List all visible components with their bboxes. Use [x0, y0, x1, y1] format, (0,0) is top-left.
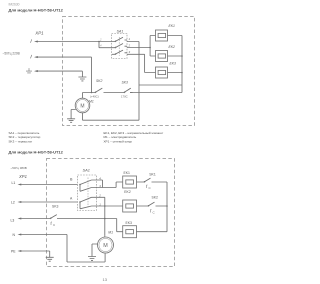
svg-text:XP1: XP1: [34, 31, 44, 36]
dashed enclosure upper schematic: [63, 17, 195, 126]
wire fan feed vertical: [104, 206, 106, 235]
wire EK3 right to node: [137, 231, 168, 233]
switch SA1 upper contact 3: [112, 50, 127, 54]
legend text left column: [9, 131, 41, 143]
svg-text:SK3: SK3: [52, 205, 59, 209]
switch SA1 upper enclosure: [112, 34, 128, 59]
node N arrow upper: [31, 55, 38, 59]
thermal cutout SK3 upper: [122, 88, 133, 93]
wire SA1 pin2 to EK1 EK2 feed: [127, 36, 156, 57]
svg-text:PE: PE: [11, 250, 16, 254]
svg-text:EK3: EK3: [170, 62, 177, 66]
ground PE upper: [78, 77, 86, 81]
svg-text:2: 2: [128, 44, 131, 48]
thermostat SK2 upper: [92, 88, 122, 93]
heater EK1 upper: [156, 30, 168, 41]
heater EK1 lower: [123, 176, 137, 188]
thermal cutout SK2 lower: [137, 202, 168, 214]
svg-text:XP1 – сетевой шнур: XP1 – сетевой шнур: [104, 139, 133, 143]
heater EK2 upper: [156, 51, 168, 62]
node N junction upper: [91, 92, 93, 94]
svg-text:SK1: SK1: [149, 172, 156, 176]
wire pin1 to EK2: [97, 205, 123, 207]
node A junction: [79, 201, 81, 203]
ground motor upper: [67, 119, 75, 123]
svg-text:SA1: SA1: [83, 168, 90, 173]
node L2 arrow: [11, 201, 21, 205]
wire N junction to motor top: [83, 93, 92, 99]
ground PE lower: [46, 257, 54, 261]
wire SA1 pin3 to EK3: [127, 54, 156, 72]
svg-text:SK2: SK2: [152, 196, 159, 200]
wire SA1 pin1 down to fan line: [127, 42, 139, 121]
node PE arrow lower: [11, 250, 21, 254]
node junction L3 motor: [104, 218, 106, 220]
wire L3 to SK3: [21, 218, 51, 220]
svg-text:EK1: EK1: [124, 171, 131, 175]
heater EK2 lower: [123, 200, 137, 212]
wire pin2 stub: [97, 197, 105, 206]
wire L1 to SA1: [21, 184, 78, 186]
wire N to motor bottom: [21, 235, 106, 263]
node L phase arrow upper: [31, 39, 38, 43]
thermal cutout SK3 lower: [50, 215, 117, 227]
motor M1 upper: [75, 98, 90, 113]
svg-text:XP1: XP1: [18, 174, 27, 179]
svg-text:EK1: EK1: [169, 24, 176, 28]
svg-text:IM2630: IM2630: [9, 3, 20, 7]
wire fan branch to bus: [139, 84, 182, 86]
wire PE to ground lower: [21, 251, 50, 257]
node bus EK2 junction: [181, 55, 183, 57]
svg-text:M1: M1: [108, 230, 113, 234]
svg-text:SK2: SK2: [96, 79, 103, 83]
svg-text:L1: L1: [12, 181, 16, 185]
svg-text:M1: M1: [89, 99, 94, 103]
node L3 arrow: [11, 217, 22, 222]
wire motor case to ground lower: [92, 244, 98, 257]
svg-text:M: M: [103, 243, 108, 249]
wire bus bottom to SK3: [130, 92, 182, 94]
wire SK1 down to node: [166, 182, 168, 232]
node junction pin2 feed: [149, 47, 151, 49]
heater EK3 upper: [156, 67, 168, 78]
pin numbers SA1 lower right: [98, 176, 101, 206]
svg-text:EK2: EK2: [124, 190, 131, 194]
wire pin4 jumper: [97, 180, 103, 188]
svg-text:Для модели H-HGT-58-UT12: Для модели H-HGT-58-UT12: [9, 149, 64, 154]
node junction phase feed: [98, 41, 100, 43]
node PE arrow upper: [26, 68, 38, 73]
node N arrow lower: [13, 233, 22, 237]
wire EK right bus: [168, 36, 183, 93]
svg-text:L3: L3: [11, 218, 15, 222]
svg-text:(+40С): (+40С): [90, 94, 99, 98]
node L1 arrow: [12, 181, 22, 186]
legend text right column: [104, 131, 164, 143]
switch SA1 lower enclosure: [78, 175, 97, 211]
node junction SK2 EK3: [166, 205, 168, 207]
svg-text:L2: L2: [11, 201, 15, 205]
switch SA1 lower contact 1: [80, 180, 97, 185]
svg-text:M: M: [80, 103, 84, 109]
wire phase jumper down: [99, 42, 112, 48]
switch SA1 upper coupling link: [118, 37, 120, 56]
switch SA1 lower coupling link: [87, 178, 89, 208]
svg-text:EK3: EK3: [126, 221, 133, 225]
wire N to junction: [38, 57, 92, 92]
wire L3 to EK3 left: [117, 219, 123, 232]
wire PE to ground: [38, 71, 83, 77]
heater EK3 lower: [123, 226, 137, 238]
wire L2 to SA1: [21, 201, 78, 203]
switch SA1 upper contact 1: [112, 37, 128, 41]
switch SA1 lower contact 3: [80, 197, 97, 202]
svg-text:~50Гц 380В: ~50Гц 380В: [11, 166, 27, 170]
wire phase L to SA1: [38, 41, 112, 43]
switch SA1 lower contact 2: [80, 185, 97, 192]
svg-text:13: 13: [103, 277, 108, 282]
switch SA1 upper contact 2: [112, 44, 128, 48]
node B junction: [79, 184, 81, 186]
ground motor lower: [88, 257, 96, 261]
node bus EK3 junction: [181, 72, 183, 74]
svg-text:SA1: SA1: [117, 30, 124, 34]
svg-text:170С: 170С: [121, 94, 128, 98]
node junction pin1 motor: [104, 205, 106, 207]
svg-text:SK3: SK3: [122, 81, 129, 85]
svg-text:Для модели H-HGT-58-UT12: Для модели H-HGT-58-UT12: [9, 7, 64, 12]
switch SA1 lower contact 4: [80, 202, 97, 209]
wire motor case to ground upper: [71, 110, 76, 119]
thermal cutout SK1 lower: [137, 178, 168, 190]
wire motor top lower: [104, 235, 106, 237]
svg-text:~50Гц 220В: ~50Гц 220В: [3, 52, 20, 56]
wire motor bottom to fan line: [83, 113, 140, 120]
dashed enclosure lower schematic: [47, 159, 175, 267]
svg-text:SK3 – термостат: SK3 – термостат: [9, 139, 33, 143]
motor M1 lower: [98, 237, 114, 253]
svg-text:EK2: EK2: [169, 45, 176, 49]
wire pin3 to EK1: [97, 182, 123, 188]
